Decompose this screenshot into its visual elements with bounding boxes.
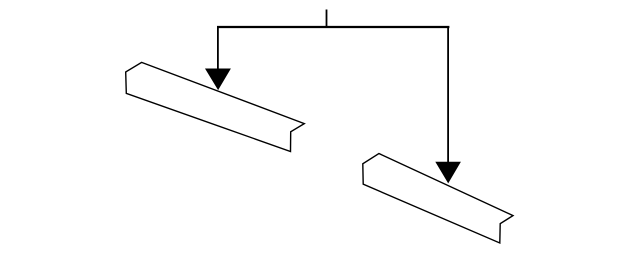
right angled bar shape xyxy=(363,154,513,244)
arrowhead left xyxy=(206,69,231,89)
wire: left vertical drop xyxy=(217,26,219,72)
wire: right vertical drop xyxy=(447,26,449,165)
left angled bar shape xyxy=(126,62,305,151)
arrowhead right xyxy=(436,162,460,182)
wire: top vertical stub xyxy=(326,10,328,28)
wire: horizontal connector xyxy=(217,26,449,28)
